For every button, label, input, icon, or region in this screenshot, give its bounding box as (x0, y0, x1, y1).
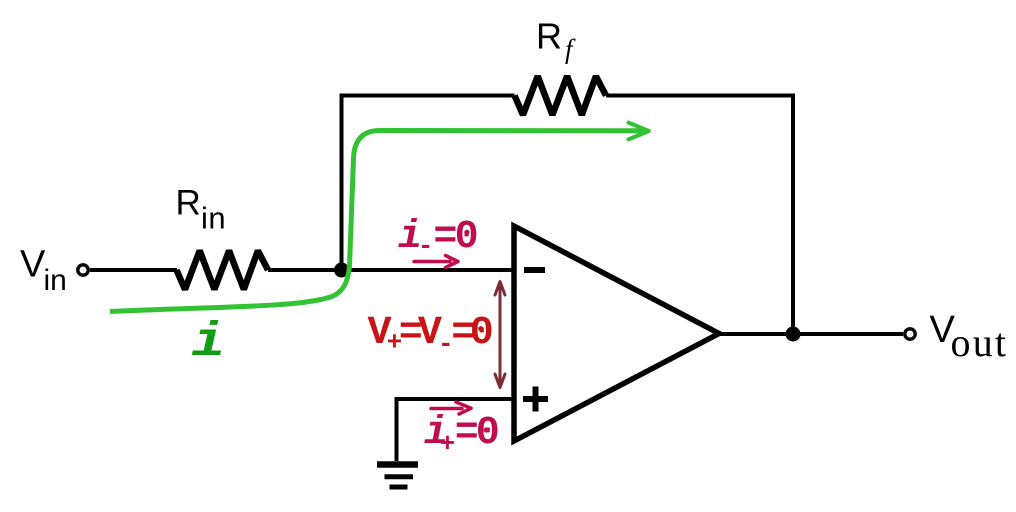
dot in zero of i+=0 (484, 427, 489, 432)
node junction dot at output (786, 327, 801, 342)
green arrowhead (629, 123, 649, 140)
svg-text:out: out (951, 320, 1009, 365)
wire resistor Rin to inverting input node (268, 268, 514, 272)
wire non-inverting input to ground (397, 399, 515, 461)
dot in zero of i-=0 (464, 230, 469, 235)
node junction dot at inverting input (334, 263, 349, 278)
arrow double-headed V+ to V- (495, 282, 505, 388)
svg-text:in: in (201, 200, 226, 235)
svg-text:V: V (20, 244, 46, 286)
svg-text:i-=0: i-=0 (398, 215, 479, 261)
arrow i+ current direction (431, 402, 471, 414)
svg-text:R: R (176, 184, 201, 223)
svg-text:i+=0: i+=0 (424, 411, 500, 459)
plus sign (non-inverting input) (523, 387, 548, 412)
terminal Vout open circle (905, 329, 915, 339)
minus sign (inverting input) (524, 267, 545, 273)
op-amp U1 (514, 226, 719, 441)
arrow i- current direction (414, 256, 458, 268)
svg-text:V+=V-=0: V+=V-=0 (368, 311, 494, 359)
dot in zero of V+=V-=0 (478, 326, 483, 331)
terminal Vin open circle (78, 265, 88, 275)
resistor Rin (177, 251, 269, 290)
svg-text:i: i (192, 315, 226, 369)
wire Rf to top-right corner (606, 96, 793, 335)
svg-text:R: R (536, 16, 562, 57)
wire feedback branch vertical up from node (342, 96, 515, 271)
wire input Vin to resistor Rin (90, 268, 177, 272)
svg-text:in: in (44, 264, 67, 297)
resistor Rf (515, 76, 607, 115)
wire output (719, 332, 903, 336)
ground (377, 465, 418, 488)
green current path i (110, 131, 643, 312)
